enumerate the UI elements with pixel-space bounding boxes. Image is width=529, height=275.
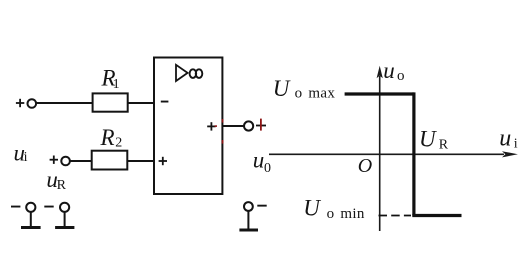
svg-text:i: i [514, 137, 518, 152]
svg-text:o min: o min [327, 206, 365, 222]
svg-text:o max: o max [295, 86, 336, 102]
svg-text:u: u [253, 147, 264, 172]
svg-text:i: i [24, 150, 28, 165]
svg-text:o: o [397, 68, 405, 84]
svg-text:U: U [273, 76, 291, 101]
svg-text:R: R [57, 178, 67, 193]
svg-text:1: 1 [113, 77, 120, 92]
svg-text:u: u [383, 58, 395, 83]
svg-text:u: u [499, 126, 511, 152]
svg-text:R: R [439, 137, 449, 152]
svg-text:R: R [100, 125, 115, 150]
svg-text:O: O [358, 155, 372, 177]
svg-text:U: U [303, 196, 321, 221]
svg-text:0: 0 [264, 161, 271, 176]
svg-text:U: U [419, 126, 437, 151]
svg-text:2: 2 [115, 135, 122, 150]
